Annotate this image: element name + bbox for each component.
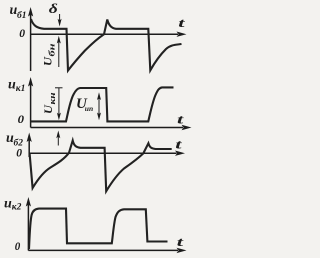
node: row1 vertical axis (u_b1 axis with arrow)	[28, 7, 33, 71]
node: row2 vertical axis	[28, 77, 33, 128]
node: row4 time axis t	[28, 248, 186, 253]
node: row3 vertical axis	[27, 133, 32, 158]
node: row4 vertical axis	[26, 197, 31, 251]
svg-text:t: t	[177, 112, 184, 127]
svg-text:ип: ип	[85, 104, 93, 113]
wire: u_k1 waveform trace	[31, 87, 174, 121]
dimension arrow: U_BN (from below axis down)	[57, 36, 61, 67]
svg-text:t: t	[177, 234, 184, 249]
wire: u_b2 waveform trace	[30, 141, 172, 192]
svg-text:u: u	[8, 77, 16, 92]
svg-text:t: t	[178, 15, 185, 30]
dimension arrow: delta (points down to flat level)	[58, 14, 62, 27]
svg-text:б1: б1	[17, 10, 27, 21]
dimension arrow: U_kn upper (points down to low level)	[57, 88, 61, 121]
label U_BN (rotated)	[41, 43, 57, 66]
svg-text:0: 0	[16, 146, 22, 160]
svg-text:0: 0	[19, 26, 25, 40]
label U_kn (rotated)	[41, 92, 57, 114]
svg-text:0: 0	[15, 239, 20, 253]
svg-text:кн: кн	[48, 92, 57, 105]
svg-text:бн: бн	[48, 43, 57, 57]
svg-text:t: t	[175, 137, 182, 152]
svg-text:0: 0	[18, 112, 24, 126]
wire: u_b1 waveform trace	[31, 19, 182, 71]
dimension arrow: U_kn lower (points up to axis, below it)	[56, 131, 60, 146]
node: row1 time axis t	[31, 32, 187, 37]
wire: u_k2 waveform trace	[29, 209, 168, 249]
svg-text:u: u	[4, 197, 12, 212]
svg-text:δ: δ	[49, 2, 58, 17]
svg-text:к1: к1	[16, 84, 26, 94]
node: row2 time axis t	[31, 125, 192, 130]
svg-text:к2: к2	[12, 202, 22, 212]
dimension arrow: U_ip double arrow	[97, 92, 101, 120]
node: row3 time axis t	[29, 151, 185, 156]
dimension: U_kn upper leader tick	[55, 87, 63, 89]
